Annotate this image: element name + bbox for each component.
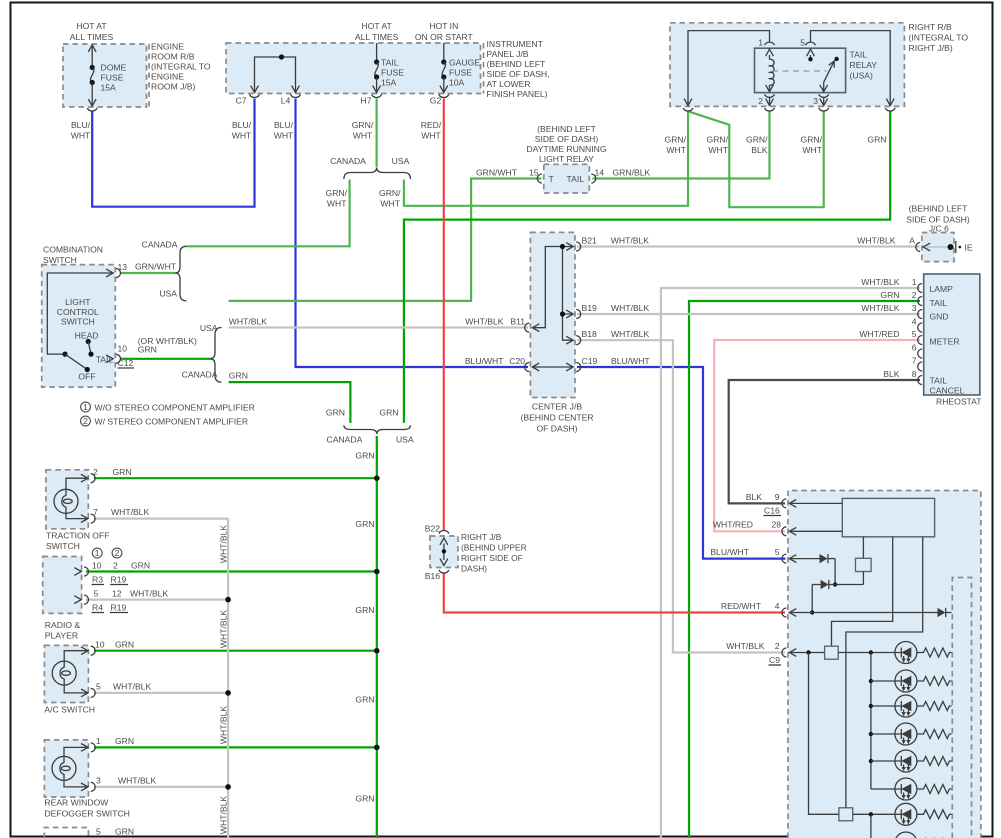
instrument cluster box fill — [788, 491, 981, 838]
legend option 1 — [81, 402, 91, 412]
cluster square S1 — [835, 537, 871, 585]
svg-text:1: 1 — [96, 736, 101, 746]
svg-text:INSTRUMENT: INSTRUMENT — [487, 39, 544, 49]
wire RED/WHT B16 to cluster pin 4 — [444, 573, 785, 613]
wire BLU/WHT dome fuse to C7 — [92, 99, 254, 207]
svg-text:(INTEGRAL TO: (INTEGRAL TO — [909, 33, 969, 43]
svg-text:B19: B19 — [582, 303, 598, 313]
daytime running light relay box — [544, 164, 590, 193]
junction dot rail traction — [374, 475, 380, 481]
cluster module drop to S3 — [846, 537, 923, 808]
svg-text:ENGINE: ENGINE — [151, 72, 184, 82]
svg-text:C19: C19 — [582, 356, 598, 366]
svg-text:WHT: WHT — [708, 145, 728, 155]
svg-text:GRN/WHT: GRN/WHT — [135, 262, 177, 272]
a/c switch pin 5 connector — [81, 688, 95, 697]
svg-text:WHT/BLK: WHT/BLK — [726, 641, 764, 651]
svg-text:4: 4 — [912, 317, 917, 327]
svg-text:10A: 10A — [449, 78, 465, 88]
instrument cluster box dashed border — [788, 491, 981, 838]
junction dot rail a/c — [374, 648, 380, 654]
wire GRN/WHT canada branch to combination switch — [187, 180, 350, 247]
wire BLU/WHT C19 to cluster pin 5 — [577, 367, 786, 559]
svg-text:BLK: BLK — [883, 369, 900, 379]
traction off switch pin 7 connector — [81, 514, 95, 523]
radio pin 5 connector — [74, 595, 88, 604]
svg-text:USA: USA — [159, 289, 177, 299]
right J/B B22-B16 internal wire — [439, 531, 449, 573]
wire GRN/WHT usa branch to right R/B left pin — [404, 111, 688, 206]
svg-text:2: 2 — [93, 467, 98, 477]
junction dot bus radio — [225, 597, 231, 603]
svg-text:IE: IE — [965, 243, 973, 253]
svg-text:WHT: WHT — [274, 131, 294, 141]
cluster bracket pin 5 — [782, 554, 820, 563]
cluster bracket pin 9 — [782, 499, 842, 508]
svg-text:WHT/BLK: WHT/BLK — [111, 507, 149, 517]
cluster illumination lamp L4 — [871, 723, 917, 745]
svg-text:WHT/BLK: WHT/BLK — [611, 303, 649, 313]
svg-text:10: 10 — [95, 640, 105, 650]
svg-text:(BEHIND LEFT: (BEHIND LEFT — [909, 204, 968, 214]
upper canada/usa brace — [344, 168, 411, 180]
svg-text:GRN: GRN — [880, 290, 899, 300]
cluster illumination lamp L5 — [871, 750, 917, 772]
svg-text:9: 9 — [775, 492, 780, 502]
svg-text:15A: 15A — [381, 78, 397, 88]
svg-text:GRN: GRN — [867, 135, 886, 145]
svg-text:USA: USA — [392, 156, 410, 166]
svg-text:B22: B22 — [425, 524, 441, 534]
svg-text:GRN/: GRN/ — [746, 135, 768, 145]
svg-text:TAIL: TAIL — [567, 174, 585, 184]
svg-text:RED/: RED/ — [421, 120, 442, 130]
svg-text:6: 6 — [912, 343, 917, 353]
svg-text:GRN: GRN — [115, 736, 134, 746]
svg-text:GRN: GRN — [355, 519, 374, 529]
svg-text:LIGHT RELAY: LIGHT RELAY — [539, 154, 594, 164]
wire BLU/WHT L4 to C20 — [296, 99, 529, 368]
svg-text:TAIL: TAIL — [930, 376, 948, 386]
cluster resistor R4 — [917, 730, 952, 739]
svg-text:5: 5 — [96, 682, 101, 692]
gauge fuse F3 — [439, 43, 449, 97]
svg-text:RADIO &: RADIO & — [45, 620, 81, 630]
center J/B bracket C19 — [576, 363, 581, 372]
svg-text:GRN: GRN — [138, 345, 157, 355]
J/C 6 internal wire IE — [916, 241, 961, 253]
svg-text:GRN/: GRN/ — [379, 188, 401, 198]
svg-text:BLU/: BLU/ — [274, 120, 294, 130]
wire WHT/BLK vertical bus — [227, 519, 229, 838]
svg-text:C16: C16 — [764, 506, 780, 516]
right R/B pin 1 feed wire — [683, 31, 775, 111]
svg-text:2: 2 — [83, 416, 88, 426]
radio circled option 1 — [92, 548, 102, 558]
svg-text:CONTROL: CONTROL — [57, 307, 99, 317]
svg-text:(BEHIND LEFT: (BEHIND LEFT — [487, 59, 546, 69]
svg-text:FUSE: FUSE — [449, 68, 472, 78]
svg-text:HOT IN: HOT IN — [429, 21, 458, 31]
svg-text:WHT/RED: WHT/RED — [859, 329, 899, 339]
svg-text:R3: R3 — [92, 575, 103, 585]
junction dot rail radio — [374, 569, 380, 575]
svg-text:WHT/BLK: WHT/BLK — [857, 236, 895, 246]
svg-text:7: 7 — [912, 356, 917, 366]
a/c switch lamp — [52, 651, 86, 693]
wire WHT/BLK rheostat pin 1 — [661, 288, 920, 838]
cluster diode D3 — [938, 608, 952, 617]
center J/B bracket C20 — [525, 363, 530, 372]
svg-text:1: 1 — [912, 277, 917, 287]
svg-text:5: 5 — [912, 329, 917, 339]
svg-text:GRN/: GRN/ — [326, 188, 348, 198]
svg-text:14: 14 — [595, 168, 605, 178]
svg-text:WHT/BLK: WHT/BLK — [465, 317, 503, 327]
svg-text:TAIL: TAIL — [930, 298, 948, 308]
defogger switch lamp — [52, 747, 87, 787]
svg-text:GND: GND — [930, 312, 949, 322]
a/c switch pin 10 connector — [81, 646, 95, 655]
svg-text:GRN: GRN — [115, 640, 134, 650]
defogger switch pin 3 connector — [81, 782, 95, 791]
svg-text:W/ STEREO COMPONENT AMPLIFIER: W/ STEREO COMPONENT AMPLIFIER — [95, 417, 249, 427]
svg-text:GRN/: GRN/ — [801, 135, 823, 145]
junction dot bus defogger — [225, 784, 231, 790]
svg-text:R19: R19 — [111, 575, 127, 585]
junction dot bus a/c — [225, 690, 231, 696]
wire GRN/WHT from tail fuse H7 — [376, 99, 378, 168]
tail fuse F2 — [372, 43, 382, 97]
svg-text:ROOM J/B): ROOM J/B) — [151, 82, 196, 92]
svg-text:TAIL: TAIL — [381, 58, 399, 68]
rheostat pin brackets 1-8 — [918, 284, 923, 385]
svg-text:METER: METER — [930, 337, 960, 347]
svg-text:4: 4 — [775, 601, 780, 611]
combination switch pin 10 brace — [211, 328, 222, 383]
wire WHT/BLK B18 to cluster C9 pin 2 — [577, 340, 785, 652]
svg-text:REAR WINDOW: REAR WINDOW — [44, 798, 109, 808]
svg-text:WHT/BLK: WHT/BLK — [229, 317, 267, 327]
wire GRN illumination rail — [376, 436, 378, 838]
svg-text:ALL TIMES: ALL TIMES — [70, 32, 114, 42]
svg-text:PLAYER: PLAYER — [45, 631, 78, 641]
wire GRN/WHT combination switch pin 13 to brace — [121, 272, 177, 274]
svg-text:WHT: WHT — [71, 131, 91, 141]
svg-text:15A: 15A — [101, 83, 117, 93]
svg-text:WHT: WHT — [666, 145, 686, 155]
svg-text:SIDE OF DASH,: SIDE OF DASH, — [487, 69, 550, 79]
cluster resistor R3 — [917, 702, 952, 711]
radio and player box — [43, 557, 82, 614]
svg-text:28: 28 — [771, 520, 781, 530]
svg-text:SWITCH: SWITCH — [46, 541, 80, 551]
tail relay box U1 — [755, 48, 846, 92]
svg-text:CENTER J/B: CENTER J/B — [532, 402, 582, 412]
svg-text:GRN: GRN — [115, 827, 134, 837]
junction dot rail defogger — [374, 745, 380, 751]
svg-text:WHT/BLK: WHT/BLK — [219, 796, 229, 834]
svg-text:WHT: WHT — [327, 199, 347, 209]
combination switch pin 13 bracket — [116, 269, 121, 278]
wire GRN/WHT right R/B left pin to relay pin 3 — [688, 111, 824, 207]
svg-text:SIDE OF DASH): SIDE OF DASH) — [535, 134, 599, 144]
svg-text:3: 3 — [912, 303, 917, 313]
wire GRN combination switch pin 10 to brace — [121, 358, 212, 360]
svg-text:WHT/BLK: WHT/BLK — [219, 610, 229, 648]
svg-text:GRN: GRN — [355, 605, 374, 615]
wire GRN radio pin 10 — [86, 570, 377, 572]
tail relay switch contacts — [807, 49, 839, 92]
svg-text:WHT/BLK: WHT/BLK — [219, 706, 229, 744]
svg-text:TRACTION OFF: TRACTION OFF — [46, 531, 110, 541]
svg-text:USA: USA — [200, 323, 218, 333]
svg-text:B16: B16 — [425, 571, 441, 581]
cluster bracket pin 28 — [782, 527, 842, 536]
DRL relay pin 15 bracket — [537, 174, 542, 183]
svg-text:WHT: WHT — [421, 131, 441, 141]
svg-text:LAMP: LAMP — [930, 284, 954, 294]
svg-text:A: A — [909, 236, 915, 246]
cluster diode D2 branch — [810, 559, 837, 615]
svg-text:GRN: GRN — [379, 407, 398, 417]
combination switch box — [42, 265, 116, 388]
svg-text:B11: B11 — [510, 317, 525, 327]
cluster inner connector strip — [952, 578, 971, 838]
svg-text:HEAD: HEAD — [75, 331, 99, 341]
svg-text:1: 1 — [95, 548, 100, 558]
center J/B bracket B18 — [576, 336, 581, 345]
radio pin 10 connector — [74, 567, 88, 576]
J/C 6 box — [922, 233, 954, 262]
svg-text:RIGHT J/B: RIGHT J/B — [461, 532, 502, 542]
svg-text:DEFOGGER SWITCH: DEFOGGER SWITCH — [44, 809, 129, 819]
svg-text:GRN: GRN — [131, 561, 150, 571]
bottom cut-off switch box — [44, 828, 88, 838]
svg-text:W/O STEREO COMPONENT AMPLIFIER: W/O STEREO COMPONENT AMPLIFIER — [95, 403, 255, 413]
svg-text:C7: C7 — [236, 96, 247, 106]
svg-text:WHT/RED: WHT/RED — [713, 520, 753, 530]
right R/B pin 3 stub — [819, 94, 829, 111]
svg-text:BLK: BLK — [751, 145, 768, 155]
svg-text:B21: B21 — [582, 236, 598, 246]
svg-text:5: 5 — [96, 827, 101, 837]
svg-text:CANADA: CANADA — [326, 435, 362, 445]
svg-text:WHT/BLK: WHT/BLK — [611, 329, 649, 339]
svg-text:GRN/: GRN/ — [352, 120, 374, 130]
cluster resistor R1 — [917, 648, 952, 657]
svg-text:7: 7 — [93, 507, 98, 517]
svg-text:COMBINATION: COMBINATION — [43, 245, 103, 255]
right R/B pin 2 stub — [765, 94, 775, 111]
svg-text:BLU/: BLU/ — [71, 120, 91, 130]
svg-text:DAYTIME RUNNING: DAYTIME RUNNING — [526, 144, 606, 154]
svg-text:8: 8 — [912, 369, 917, 379]
svg-text:2: 2 — [775, 641, 780, 651]
svg-text:WHT/BLK: WHT/BLK — [130, 589, 168, 599]
svg-text:10: 10 — [92, 561, 102, 571]
wire WHT/BLK a/c switch pin 5 — [94, 692, 228, 694]
traction off switch lamp — [54, 478, 87, 518]
svg-text:10: 10 — [118, 344, 128, 354]
svg-text:ROOM R/B: ROOM R/B — [151, 52, 195, 62]
wire GRN traction off switch pin 2 — [94, 477, 377, 479]
svg-text:WHT/BLK: WHT/BLK — [219, 525, 229, 563]
svg-text:GAUGE: GAUGE — [449, 58, 480, 68]
wire WHT/BLK traction off switch pin 7 — [94, 517, 228, 519]
cluster resistor R2 — [917, 677, 952, 686]
svg-text:CANADA: CANADA — [142, 240, 178, 250]
wire WHT/BLK radio pin 12 — [86, 598, 228, 600]
svg-text:(BEHIND CENTER: (BEHIND CENTER — [520, 413, 593, 423]
cluster bracket pin 4 — [782, 608, 938, 617]
svg-text:BLU/WHT: BLU/WHT — [710, 547, 749, 557]
svg-text:OF DASH): OF DASH) — [536, 424, 577, 434]
svg-text:WHT/BLK: WHT/BLK — [113, 682, 151, 692]
svg-text:1: 1 — [83, 402, 88, 412]
svg-text:SWITCH: SWITCH — [43, 255, 77, 265]
svg-text:WHT: WHT — [353, 131, 373, 141]
svg-text:CANADA: CANADA — [330, 156, 366, 166]
svg-text:GRN: GRN — [355, 695, 374, 705]
svg-text:R19: R19 — [111, 603, 127, 613]
traction off switch box — [46, 470, 88, 529]
svg-text:LIGHT: LIGHT — [65, 297, 91, 307]
svg-text:GRN: GRN — [355, 451, 374, 461]
instrument panel J/B separator — [483, 43, 485, 94]
svg-text:GRN/: GRN/ — [707, 135, 729, 145]
cluster illumination lamp L1 — [895, 642, 917, 664]
svg-text:12: 12 — [112, 589, 122, 599]
lower canada/usa brace — [344, 425, 411, 434]
svg-text:1: 1 — [758, 38, 763, 48]
defogger switch pin 1 connector — [81, 743, 95, 752]
combination switch pin 13 brace — [176, 246, 187, 301]
svg-text:CANADA: CANADA — [182, 370, 218, 380]
instrument panel J/B box — [226, 43, 481, 94]
svg-text:WHT: WHT — [380, 199, 400, 209]
rear window defogger switch box — [44, 740, 88, 797]
svg-text:3: 3 — [96, 776, 101, 786]
wire GRN right R/B right pin to lower brace — [404, 111, 890, 423]
svg-text:2: 2 — [113, 561, 118, 571]
svg-text:L4: L4 — [281, 96, 291, 106]
svg-text:5: 5 — [94, 589, 99, 599]
tail relay mechanical link — [772, 70, 827, 72]
combination switch pin 10 bracket — [106, 354, 120, 363]
svg-text:WHT: WHT — [232, 131, 252, 141]
svg-text:G2: G2 — [430, 96, 442, 106]
svg-text:C12: C12 — [118, 358, 134, 368]
svg-text:AT LOWER: AT LOWER — [487, 79, 531, 89]
svg-text:RHEOSTAT: RHEOSTAT — [936, 397, 982, 407]
center J/B bracket B11 — [525, 323, 530, 332]
svg-text:2: 2 — [912, 290, 917, 300]
svg-text:FINISH PANEL): FINISH PANEL) — [487, 89, 548, 99]
svg-text:T: T — [549, 174, 555, 184]
wire GRN/WHT into DRL relay pin 15 — [229, 179, 542, 301]
svg-text:HOT AT: HOT AT — [361, 21, 392, 31]
cluster illumination row 1 wire — [806, 650, 900, 654]
light control switch contacts — [62, 339, 93, 372]
wire WHT/BLK defogger switch pin 3 — [94, 786, 228, 788]
svg-text:ALL TIMES: ALL TIMES — [355, 32, 399, 42]
svg-text:H7: H7 — [361, 96, 372, 106]
cluster lower feed to S3 — [809, 653, 901, 838]
svg-text:B18: B18 — [582, 329, 598, 339]
center J/B internal wiring — [532, 243, 573, 371]
svg-text:(INTEGRAL TO: (INTEGRAL TO — [151, 62, 211, 72]
cluster resistor R7 — [917, 810, 952, 819]
combination switch internal feed wire — [47, 269, 113, 354]
svg-text:C20: C20 — [509, 356, 525, 366]
svg-text:J/C 6: J/C 6 — [929, 224, 949, 234]
svg-text:WHT/BLK: WHT/BLK — [861, 277, 899, 287]
svg-text:RIGHT SIDE OF: RIGHT SIDE OF — [461, 553, 523, 563]
cluster module rect — [842, 498, 934, 536]
svg-text:HOT AT: HOT AT — [76, 21, 107, 31]
svg-text:C9: C9 — [769, 655, 780, 665]
wire GRN to rheostat pin 2 — [689, 301, 920, 838]
cluster square S2 — [825, 646, 839, 659]
wire RED/WHT from gauge fuse G2 — [443, 99, 445, 531]
legend option 2 — [81, 416, 91, 426]
right J/B B22 box — [430, 536, 458, 568]
svg-text:FUSE: FUSE — [101, 73, 124, 83]
svg-text:TAIL: TAIL — [96, 354, 114, 364]
svg-text:WHT/BLK: WHT/BLK — [118, 776, 156, 786]
rheostat box — [924, 274, 980, 395]
svg-text:WHT/BLK: WHT/BLK — [861, 303, 899, 313]
cluster illumination lamp L2 — [871, 670, 917, 692]
svg-text:13: 13 — [118, 262, 128, 272]
right R/B pin 5 feed wire — [806, 31, 896, 111]
svg-text:PANEL J/B: PANEL J/B — [487, 49, 529, 59]
svg-text:GRN/: GRN/ — [665, 135, 687, 145]
cluster module drop to S2 — [832, 537, 893, 646]
dome fuse F1 — [87, 44, 97, 111]
svg-text:RIGHT J/B): RIGHT J/B) — [909, 43, 953, 53]
center J/B box — [530, 232, 575, 397]
wire WHT/BLK B19 to rheostat pin 3 — [577, 313, 920, 315]
center J/B bracket B19 — [576, 310, 581, 319]
cluster LED bus — [869, 653, 873, 790]
svg-text:SWITCH: SWITCH — [61, 317, 95, 327]
svg-text:ON OR START: ON OR START — [415, 32, 474, 42]
wire GRN defogger switch pin 1 — [94, 746, 377, 748]
svg-text:5: 5 — [775, 547, 780, 557]
cluster resistor R6 — [917, 785, 952, 794]
wire GRN canada from combination switch to lower brace — [229, 382, 351, 423]
svg-text:GRN: GRN — [229, 371, 248, 381]
DRL relay pin 14 bracket — [591, 174, 596, 183]
cluster illumination lamp L8 — [895, 832, 917, 838]
cluster diode D1 — [820, 554, 836, 563]
svg-text:BLK: BLK — [746, 492, 763, 502]
svg-text:GRN/BLK: GRN/BLK — [613, 168, 651, 178]
wire WHT/BLK B21 to J/C 6 — [577, 245, 920, 247]
cluster illumination lamp L6 — [871, 778, 917, 800]
svg-text:A/C SWITCH: A/C SWITCH — [44, 705, 95, 715]
wire GRN/BLK relay pin 2 to DRL relay pin 14 — [593, 111, 770, 178]
svg-text:GRN: GRN — [326, 407, 345, 417]
wire WHT/RED rheostat pin 5 to cluster pin 28 — [714, 340, 920, 531]
cluster bracket pin 2 C9 — [782, 648, 825, 657]
a/c switch box — [44, 645, 88, 702]
svg-text:WHT: WHT — [802, 145, 822, 155]
svg-text:GRN: GRN — [355, 794, 374, 804]
svg-text:(USA): (USA) — [850, 71, 874, 81]
